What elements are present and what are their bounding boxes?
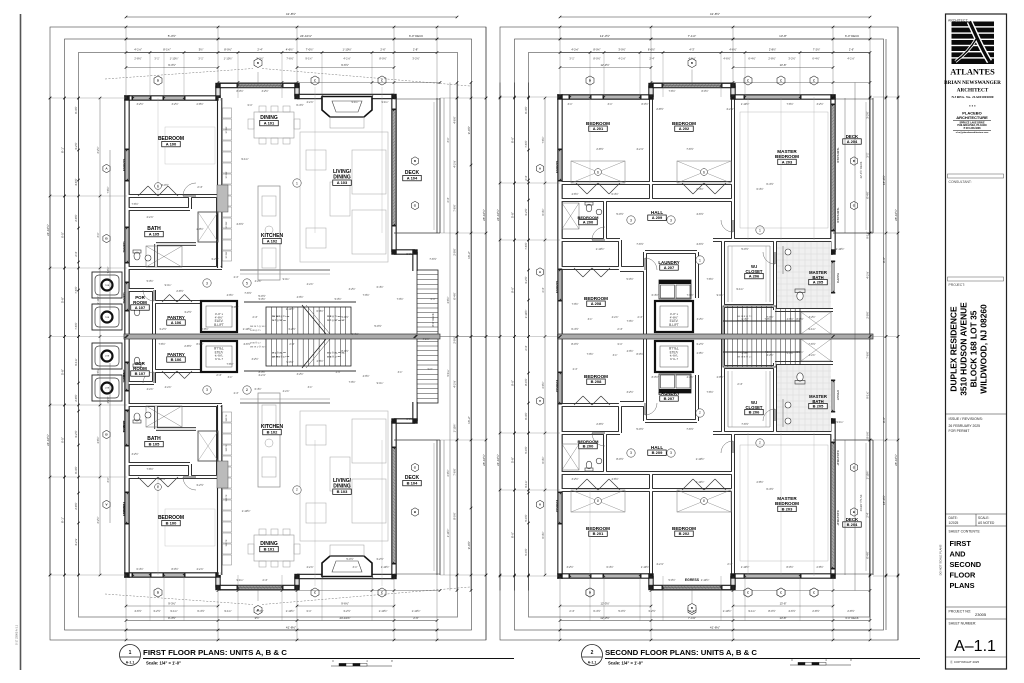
dining table [254,112,294,138]
bottom dimension rows second floor [560,620,870,622]
washer dryer [659,280,691,299]
svg-text:7'-6½": 7'-6½" [686,427,693,431]
svg-text:NJ REG. No. 21AI01001000: NJ REG. No. 21AI01001000 [952,95,994,99]
master bath tile [777,242,831,308]
kitchen wall [217,405,219,575]
svg-text:2'-4": 2'-4" [689,609,694,613]
svg-text:A 106: A 106 [171,320,182,325]
svg-text:9'-0½": 9'-0½" [467,541,471,549]
svg-text:EGRESS: EGRESS [555,281,559,294]
svg-text:2'-4": 2'-4" [524,345,528,350]
svg-text:3'-2½": 3'-2½" [184,310,191,314]
svg-text:2'-8½": 2'-8½" [196,227,203,231]
svg-text:3'-2½": 3'-2½" [74,430,78,437]
svg-text:5'-8": 5'-8" [60,297,64,303]
stair walls [244,301,356,303]
first floor scale bar [331,665,392,667]
svg-text:4'-2⅞": 4'-2⅞" [343,57,350,61]
por room toilet [134,357,140,365]
svg-text:8'-6": 8'-6" [510,137,514,143]
svg-text:3'-2½": 3'-2½" [74,142,78,149]
master bath tile [777,365,831,431]
svg-text:9'-1¼": 9'-1¼" [305,57,312,61]
svg-text:Ⓒ COPYRIGHT 2025: Ⓒ COPYRIGHT 2025 [950,659,979,664]
svg-text:8'-0½": 8'-0½" [406,417,413,421]
svg-text:7'-2½": 7'-2½" [813,48,820,52]
svg-text:TEMPERED: TEMPERED [836,207,840,223]
svg-text:3'-2½": 3'-2½" [524,276,528,283]
elevator shaft second floor [655,301,693,332]
svg-text:PLANS: PLANS [950,581,975,590]
svg-text:6'-4½": 6'-4½" [197,609,204,613]
svg-text:1'-10½": 1'-10½" [596,247,605,251]
svg-text:3'-2½": 3'-2½" [809,315,816,319]
shower [146,406,182,427]
svg-text:4'-2⅞": 4'-2⅞" [74,538,78,545]
left dimension column second floor [499,83,501,591]
svg-text:4'-6½": 4'-6½" [611,477,618,481]
svg-text:4'-2⅞": 4'-2⅞" [847,57,854,61]
svg-text:7'-6½": 7'-6½" [741,422,748,426]
grid bubbles second floor top [586,76,594,85]
svg-text:2'-8½": 2'-8½" [196,102,203,106]
svg-text:6'-4½": 6'-4½" [377,285,384,289]
svg-text:2'-8½": 2'-8½" [74,502,78,509]
stair second floor [723,306,800,337]
svg-text:TUB: TUB [105,354,110,356]
svg-text:5'-0½": 5'-0½" [636,427,643,431]
svg-text:5'-0½": 5'-0½" [626,277,633,281]
svg-text:24'-10½": 24'-10½" [46,434,50,446]
svg-text:2'-8½": 2'-8½" [768,57,775,61]
svg-text:1'-10½": 1'-10½" [696,457,705,461]
svg-text:4'-6½": 4'-6½" [96,436,100,443]
svg-text:DN 18 R @ 7¾: DN 18 R @ 7¾ [737,355,752,358]
svg-text:9'-1¼": 9'-1¼" [447,369,450,376]
extra bottom dim row second floor [560,605,651,607]
interior grid lines second floor [747,97,749,240]
svg-text:8'-0½": 8'-0½" [171,567,178,571]
door arcs second floor [592,227,605,240]
svg-text:1/2025: 1/2025 [949,521,959,525]
svg-text:8'-0¼": 8'-0¼" [593,48,600,52]
svg-text:3'-1": 3'-1" [398,371,403,374]
closet xboxes [571,161,625,183]
svg-text:3'-1": 3'-1" [608,103,613,106]
svg-text:24'-10⅝": 24'-10⅝" [300,34,312,38]
exterior stair [417,337,438,404]
closet xboxes [571,490,625,512]
svg-text:2'-8½": 2'-8½" [541,381,545,388]
svg-text:13'-8": 13'-8" [779,34,787,38]
svg-text:EGRESS: EGRESS [555,161,559,174]
svg-text:7'-6½": 7'-6½" [524,242,528,249]
svg-text:3: 3 [206,281,208,285]
svg-text:1'-10½": 1'-10½" [641,565,650,569]
svg-text:9'-1¼": 9'-1¼" [808,327,815,331]
svg-text:5'-8": 5'-8" [510,457,514,463]
second floor plan title bubble [582,645,603,666]
svg-text:4'-2⅞": 4'-2⅞" [307,283,314,286]
svg-text:2'-8½": 2'-8½" [184,344,191,348]
svg-text:A 101: A 101 [264,121,275,126]
svg-text:9'-1¼": 9'-1¼" [796,351,803,354]
svg-text:4'-2⅞": 4'-2⅞" [306,101,313,104]
right inner dim lines first floor [443,98,445,233]
svg-text:5'-0½": 5'-0½" [524,548,528,555]
svg-text:8'-0½": 8'-0½" [379,57,386,61]
svg-text:A 107: A 107 [135,305,146,310]
svg-text:B 207: B 207 [664,396,675,401]
svg-text:28'-10½": 28'-10½" [482,454,486,466]
svg-text:9'-6½": 9'-6½" [341,602,349,606]
bottom dimension rows first floor [126,620,437,622]
elevator shaft second floor [655,341,693,372]
svg-text:5: 5 [246,388,248,392]
svg-text:4'-6½": 4'-6½" [446,296,450,303]
svg-text:2'-8½": 2'-8½" [847,609,854,613]
svg-text:4'-2⅞": 4'-2⅞" [196,568,203,571]
svg-text:SCALE:: SCALE: [978,516,989,520]
svg-text:B 102: B 102 [267,430,278,435]
bedroom ceiling rect [165,509,215,546]
svg-text:3'-2½": 3'-2½" [349,287,356,291]
svg-text:A–1.1: A–1.1 [954,638,996,655]
svg-text:5'-0½": 5'-0½" [259,297,266,301]
svg-text:3'-1": 3'-1" [107,477,110,482]
svg-text:2'-8½": 2'-8½" [201,327,208,331]
svg-text:2'-4": 2'-4" [542,287,545,292]
svg-text:1'-10½": 1'-10½" [453,424,457,433]
top dimension row 1 second floor [560,16,870,18]
svg-text:7'-6½": 7'-6½" [453,468,457,475]
svg-text:6'-4½": 6'-4½" [652,293,659,297]
svg-text:8'-0½": 8'-0½" [616,457,623,461]
svg-text:3'-1": 3'-1" [247,103,252,107]
svg-text:13'-8": 13'-8" [780,602,787,606]
svg-text:B 202: B 202 [679,531,690,536]
extension lines second floor [559,27,561,97]
window jamb ticks first floor [132,97,134,99]
tick clusters first floor [125,97,128,100]
sheet left border line [20,14,22,670]
svg-text:9'-1¼": 9'-1¼" [224,609,231,613]
svg-text:8'-0½": 8'-0½" [652,375,659,379]
svg-text:8'-0½": 8'-0½" [636,352,643,356]
svg-text:8'-1": 8'-1" [60,147,64,153]
svg-text:4'-6½": 4'-6½" [696,212,703,216]
svg-text:5'-0½": 5'-0½" [668,578,675,582]
svg-text:3'-2½": 3'-2½" [648,609,655,613]
svg-text:2'-8½": 2'-8½" [74,394,78,401]
svg-text:SECOND FLOOR PLANS: UNITS A, B: SECOND FLOOR PLANS: UNITS A, B & C [605,650,757,657]
svg-text:A 203: A 203 [782,159,793,164]
svg-text:30″ REF: 30″ REF [226,126,228,134]
svg-text:12'-3½": 12'-3½" [600,34,610,38]
svg-text:14 R @ 7¾: 14 R @ 7¾ [250,341,261,344]
svg-text:3: 3 [670,451,672,455]
svg-text:5'-0½": 5'-0½" [346,557,353,561]
svg-text:2'-4": 2'-4" [216,373,221,377]
svg-text:4'-2⅞": 4'-2⅞" [453,380,457,387]
closet bifold doors second floor [576,183,587,194]
svg-text:7'-6½": 7'-6½" [226,362,233,366]
svg-text:9'-1¼": 9'-1¼" [866,231,870,238]
svg-text:B 203: B 203 [782,506,793,511]
svg-text:TEMP'D: TEMP'D [122,241,126,253]
first floor unit B geometry (mirrored) [92,334,440,615]
svg-text:7'-6½": 7'-6½" [627,319,634,323]
svg-text:B 209: B 209 [652,450,663,455]
svg-text:2'-8½": 2'-8½" [176,289,183,293]
svg-text:7'-6½": 7'-6½" [541,136,545,143]
svg-text:AS NOTED: AS NOTED [978,521,995,525]
svg-text:7'-6½": 7'-6½" [106,186,110,193]
svg-text:3'-1": 3'-1" [154,57,159,61]
svg-text:DO NOT SCALE PLANS: DO NOT SCALE PLANS [939,545,943,576]
exterior wall corner poche [124,572,129,577]
svg-text:4'-2⅞": 4'-2⅞" [422,338,429,341]
svg-text:9'-1¼": 9'-1¼" [836,421,843,424]
svg-text:16'-2": 16'-2" [467,251,471,259]
svg-text:TEMPERED: TEMPERED [836,147,840,163]
svg-text:30″ REF: 30″ REF [226,251,228,259]
svg-text:4'-2⅞": 4'-2⅞" [726,107,733,111]
svg-text:3'-2½": 3'-2½" [131,452,138,456]
svg-text:A 102: A 102 [267,239,278,244]
svg-text:2'-4": 2'-4" [257,48,262,52]
svg-text:6'-4½": 6'-4½" [524,412,528,419]
extension lines second floor horizontal [500,96,560,98]
svg-text:4'-2⅞": 4'-2⅞" [612,316,619,319]
svg-text:ATLANTES: ATLANTES [950,68,995,77]
svg-text:4'-6½": 4'-6½" [787,317,794,321]
svg-text:3'-2½": 3'-2½" [171,102,178,106]
svg-text:B-LIFT: B-LIFT [214,323,224,327]
svg-text:2'-4": 2'-4" [74,251,78,256]
washer dryer [659,374,691,393]
project section divider [948,277,1004,281]
svg-text:7'-6½": 7'-6½" [453,204,457,211]
svg-text:5'-0½": 5'-0½" [524,514,528,521]
toilet bath [134,252,140,260]
svg-text:WILDWOOD, NJ 08260: WILDWOOD, NJ 08260 [979,304,989,394]
svg-text:8'-0½": 8'-0½" [866,431,870,438]
sheet number cell [946,618,1007,620]
svg-text:9'-1¼": 9'-1¼" [236,579,243,582]
svg-text:4'-2⅞": 4'-2⅞" [688,57,695,61]
toilet and sink hall bath [586,461,592,469]
party wall second floor [558,334,873,339]
svg-text:2'-4": 2'-4" [866,512,870,517]
svg-text:7'-1⅝": 7'-1⅝" [688,616,696,620]
svg-text:6'-4½": 6'-4½" [766,182,773,186]
svg-text:4'-2⅞": 4'-2⅞" [687,376,694,379]
svg-text:7'-6½": 7'-6½" [764,317,771,321]
deck second floor [869,98,871,233]
svg-text:7'-6½": 7'-6½" [244,291,251,295]
svg-text:7'-6½": 7'-6½" [636,242,643,246]
closet number bubbles [595,169,602,176]
svg-text:3'-1": 3'-1" [198,57,203,61]
svg-text:6'-4½": 6'-4½" [256,609,263,613]
svg-text:6'-4½": 6'-4½" [316,309,323,313]
svg-text:5'-0½": 5'-0½" [256,57,263,61]
consultant section divider [948,174,1004,178]
svg-text:3'-2½": 3'-2½" [376,557,383,561]
svg-text:4'-6½": 4'-6½" [236,222,243,226]
svg-text:3'-0½": 3'-0½" [618,48,625,52]
svg-text:8'-0½": 8'-0½" [259,370,266,374]
svg-text:12'-3½": 12'-3½" [600,616,609,620]
stair walls [244,370,356,372]
svg-text:3: 3 [630,218,632,222]
svg-text:B 101: B 101 [264,547,275,552]
svg-text:8'-0½": 8'-0½" [453,512,457,519]
svg-text:BLOCK 168 LOT 35: BLOCK 168 LOT 35 [969,310,979,387]
date scale cells [946,513,1007,515]
svg-text:S-17 23005 A-1.1: S-17 23005 A-1.1 [15,624,19,645]
svg-text:7'-6½": 7'-6½" [146,467,153,471]
svg-text:3½": 3½" [255,616,260,620]
svg-text:30″ REF: 30″ REF [226,171,228,179]
svg-text:7'-6½": 7'-6½" [363,293,370,297]
second floor scale bar [790,664,851,666]
svg-text:3'-2½": 3'-2½" [524,208,528,215]
svg-text:9'-1¼": 9'-1¼" [524,480,528,487]
door circles [293,179,301,187]
svg-text:8'-0½": 8'-0½" [796,317,803,321]
svg-text:1'-10½": 1'-10½" [741,102,750,106]
ticks on boundary rects first floor [125,26,128,29]
linen closet [198,212,218,242]
svg-text:DATE:: DATE: [949,516,958,520]
exterior wall corner poche second floor [557,573,562,578]
svg-text:2'-4": 2'-4" [197,185,202,189]
svg-text:13'-8": 13'-8" [779,616,786,620]
svg-text:2'-8½": 2'-8½" [769,48,776,52]
svg-text:9'-1¼": 9'-1¼" [74,358,78,365]
svg-text:CONSULTANT:: CONSULTANT: [949,180,972,184]
bubble stems [257,72,259,86]
shower bedroom200 [562,444,579,470]
svg-text:4'-2⅞": 4'-2⅞" [656,562,663,566]
svg-text:1'-10½": 1'-10½" [381,565,390,569]
window jamb ticks second floor [569,575,571,577]
svg-text:3'-1": 3'-1" [613,354,618,357]
svg-text:7'-6½": 7'-6½" [74,286,78,293]
svg-text:12'-3½": 12'-3½" [600,63,609,67]
svg-text:3'-2½": 3'-2½" [96,146,100,153]
svg-text:5'-0½": 5'-0½" [286,360,293,364]
master shower [801,312,831,334]
svg-text:8'-0½": 8'-0½" [641,102,648,106]
svg-text:4'-2⅝": 4'-2⅝" [571,48,578,52]
windows on walls [133,573,150,576]
svg-text:6'-4½": 6'-4½" [611,192,618,196]
svg-text:2'-4": 2'-4" [638,316,643,319]
svg-text:1'-10½": 1'-10½" [170,57,179,61]
party wall first floor [124,334,440,339]
svg-text:P 215.248.4338: P 215.248.4338 [964,127,982,130]
svg-text:2'-4": 2'-4" [737,382,742,386]
toilet and sink hall bath [586,204,592,212]
windows second floor [570,95,590,98]
svg-text:4'-2⅞": 4'-2⅞" [107,396,110,403]
por room door arc [143,372,154,383]
master shower [801,339,831,361]
svg-text:B-LIFT: B-LIFT [214,346,224,350]
svg-text:1'-10½": 1'-10½" [412,609,421,613]
svg-text:2'-4": 2'-4" [617,327,622,331]
closet bifold doors second floor [576,479,587,490]
svg-text:6: 6 [703,499,705,503]
svg-text:3'-1": 3'-1" [588,318,593,321]
svg-text:3'-2½": 3'-2½" [196,483,203,487]
svg-text:8'-0½": 8'-0½" [768,609,775,613]
por room walls [124,334,129,578]
svg-text:B 103: B 103 [337,489,348,494]
dining table [254,535,294,561]
svg-text:3'-1": 3'-1" [306,609,311,613]
svg-text:9'-0½": 9'-0½" [467,126,471,134]
svg-text:6'-4½": 6'-4½" [541,208,545,215]
sink bath [145,255,151,261]
svg-text:4'-2⅞": 4'-2⅞" [636,147,643,151]
svg-text:2'-8½": 2'-8½" [446,469,450,476]
wi closet shelves [727,246,729,302]
grid bubbles left [103,500,110,508]
svg-text:1'-10½": 1'-10½" [243,327,252,331]
window jamb ticks first floor [132,574,134,576]
svg-text:3'-1": 3'-1" [568,103,573,106]
living room rug and furniture [300,411,388,541]
svg-text:4'-2⅞": 4'-2⅞" [134,48,142,52]
door circles second floor [627,216,635,224]
grid bubbles second floor bottom [586,588,594,597]
grid bubbles right deck [411,508,418,516]
svg-text:4'-2⅞": 4'-2⅞" [866,271,870,278]
svg-text:4'-6½": 4'-6½" [134,609,141,613]
stair second floor [723,337,800,368]
deck edge [436,98,438,233]
project number cell [946,606,1007,608]
svg-text:9'-1¼": 9'-1¼" [170,609,177,613]
svg-text:B 104: B 104 [407,481,418,486]
svg-text:3'-2½": 3'-2½" [566,565,573,569]
svg-text:7'-6½": 7'-6½" [74,322,78,329]
svg-text:2'-4": 2'-4" [234,276,239,279]
stairwell rails [240,269,330,271]
svg-text:2'-4": 2'-4" [263,579,268,582]
svg-text:13'-8": 13'-8" [780,63,787,67]
svg-text:3'-2½": 3'-2½" [866,111,870,118]
svg-text:8'-0½": 8'-0½" [341,349,348,353]
closet doors bedroom [138,477,148,487]
svg-text:5'-0½": 5'-0½" [374,324,381,328]
second floor unit A geometry [536,58,873,339]
svg-text:14 R @ 7¾: 14 R @ 7¾ [250,329,261,332]
svg-text:7'-6½": 7'-6½" [106,266,110,273]
extension lines first floor [125,27,127,98]
svg-text:5'-0½": 5'-0½" [147,279,154,283]
svg-text:5'-0½": 5'-0½" [335,297,342,301]
svg-text:5'-0½": 5'-0½" [618,609,625,613]
svg-text:6: 6 [597,170,599,174]
svg-text:5'-0½": 5'-0½" [341,315,348,319]
inner top dim second floor [651,82,870,84]
svg-text:2'-4": 2'-4" [524,175,528,180]
